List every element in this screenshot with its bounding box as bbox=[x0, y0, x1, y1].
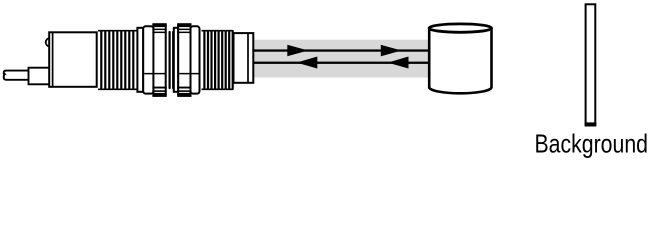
mounting nut N1 top chamfer bands bbox=[152, 24, 166, 27]
target object cylinder top ellipse bbox=[429, 24, 491, 32]
mounting nut N2 top chamfer bands bbox=[177, 24, 191, 27]
thread section A bbox=[101, 32, 133, 89]
emitted beam arrowhead 2 bbox=[381, 45, 402, 57]
cable gland sleeve bbox=[29, 68, 50, 85]
emitted beam line (top) bbox=[253, 49, 428, 51]
reflected beam line (bottom) bbox=[253, 62, 428, 64]
mounting nut N1 bottom chamfer bands bbox=[152, 87, 166, 89]
svg-text:Background: Background bbox=[535, 128, 649, 158]
thread section A crest edges bbox=[98, 30, 137, 32]
background wall bar thick base bbox=[585, 122, 597, 126]
thread section C crest edges bbox=[202, 30, 234, 32]
emitted beam arrowhead 1 bbox=[287, 45, 308, 57]
mounting nut N1 collar bbox=[143, 26, 153, 93]
rear body flange line bbox=[52, 32, 54, 87]
sensor rear body bbox=[49, 32, 96, 87]
mounting nut N2 washer bbox=[191, 26, 200, 93]
mounting nut N1 washer bbox=[137, 28, 143, 92]
mounting nut N1 facet boundary line bbox=[144, 73, 165, 75]
sensor front cap bbox=[234, 33, 254, 83]
mounting nut N2 bottom chamfer bands bbox=[177, 87, 191, 89]
reflected beam arrowhead 2 bbox=[388, 57, 409, 69]
mounting nut N2 hex facet bbox=[178, 24, 190, 96]
sensor front cap inner line bbox=[247, 33, 249, 83]
LED indicator dome bbox=[46, 38, 54, 46]
background wall bar bbox=[586, 4, 596, 124]
thread section B (between nuts) bbox=[170, 32, 174, 88]
thread section C bbox=[204, 32, 232, 89]
target object cylinder body bbox=[429, 28, 491, 93]
mounting nut N1 hex facet bbox=[153, 24, 165, 96]
mounting nut N2 collar bbox=[174, 28, 178, 92]
reflected beam arrowhead 1 bbox=[297, 57, 318, 69]
sensor cable bbox=[4, 71, 29, 80]
mounting nut N2 facet boundary line bbox=[179, 73, 199, 75]
light beam band bbox=[253, 40, 428, 78]
